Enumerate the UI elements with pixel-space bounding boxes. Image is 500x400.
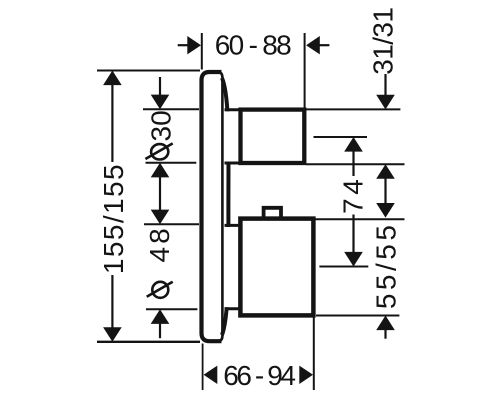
dimension Ø30: top arrow with shaft <box>159 77 161 95</box>
svg-text:48: 48 <box>144 225 175 262</box>
wall plate outline: right edge <box>218 72 223 341</box>
dimension 155/155: bottom extension line <box>97 341 200 343</box>
dimension 66-94: left extension line <box>202 344 204 391</box>
knob 2 top tab <box>264 208 281 219</box>
dimension 74: extension line at large knob centerline <box>319 266 368 268</box>
dimension Ø30: extension line at knob top (left of plate) <box>143 108 199 110</box>
dimension Ø48: diameter symbol slash <box>147 282 173 297</box>
dimension Ø48: extension line at neck top (left of plate) <box>144 223 199 225</box>
wall plate outline: left/top/bottom <box>202 72 222 341</box>
dimension Ø30: extension line at knob bottom (left of plate) <box>146 162 197 164</box>
dimension Ø48: extension line at neck bottom (left of plate) <box>146 308 197 310</box>
wall plate dome edge <box>222 78 228 335</box>
dimension 31/31: extension line at small knob top <box>305 108 401 110</box>
dimension 60-88: left arrow <box>178 44 188 46</box>
dimension Ø30: diameter symbol circle <box>151 144 168 159</box>
dimension 31/31: lower arrow with shaft to 55/55 upper arrow <box>376 164 395 179</box>
svg-text:66 - 94: 66 - 94 <box>223 360 295 391</box>
svg-text:155/155: 155/155 <box>98 163 129 274</box>
dimension 74: lower arrow with shaft <box>352 215 354 253</box>
knob 2 neck top line <box>225 224 243 227</box>
dimension 155/155: top arrow with shaft <box>103 71 122 86</box>
svg-text:30: 30 <box>146 110 177 141</box>
knob 1 (small handle) body <box>241 110 305 163</box>
dimension 60-88: left extension line <box>201 33 203 70</box>
svg-text:74: 74 <box>337 176 368 214</box>
dimension 155/155: bottom arrow with shaft <box>111 275 113 328</box>
dimension 74: upper arrow with shaft <box>344 137 363 152</box>
dimension Ø48: diameter symbol circle <box>152 282 168 298</box>
white cutouts where knob necks cross the dome <box>224 111 239 161</box>
dimension 55/55: extension line at large knob top <box>316 218 405 220</box>
svg-text:55/55: 55/55 <box>371 222 402 310</box>
dimension 60-88: right extension line <box>304 33 306 108</box>
svg-text:31/31: 31/31 <box>368 8 399 75</box>
dimension 155/155: top extension line <box>97 70 200 72</box>
knob 2 (large handle) body <box>240 219 313 316</box>
dimension Ø48: bottom arrow with shaft <box>151 309 170 324</box>
dimension 31/31: extension line at small knob bottom <box>306 163 405 165</box>
dimension 74: extension line at small knob centerline <box>314 136 368 138</box>
dimension 66-94: right extension line <box>313 318 315 391</box>
dimension 60-88: right arrow <box>306 36 320 54</box>
knob 1 neck top line <box>225 108 243 111</box>
knob 2 neck bottom line <box>225 307 243 310</box>
svg-text:60 - 88: 60 - 88 <box>215 30 291 61</box>
dimension 55/55: lower arrow with shaft <box>376 316 395 331</box>
dimension 31/31: upper arrow with shaft <box>384 74 386 96</box>
dimension 55/55: extension line at large knob bottom <box>316 315 399 317</box>
dimension 66-94: right arrow <box>299 366 313 384</box>
dimension Ø30: diameter symbol slash <box>145 143 172 159</box>
knob 1 neck bottom line <box>225 162 243 165</box>
dimension 66-94: left arrow <box>204 366 218 384</box>
dimension Ø30: bottom arrow with shaft to Ø48 top arrow <box>151 163 170 178</box>
